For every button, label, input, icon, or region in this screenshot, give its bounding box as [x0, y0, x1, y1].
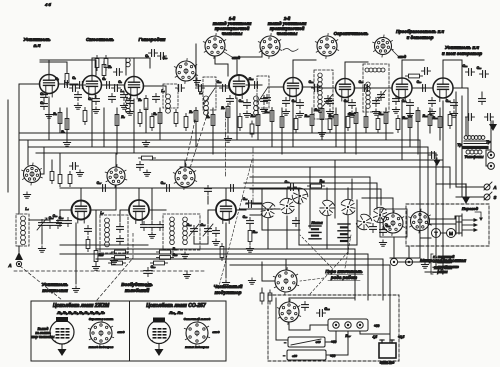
- svg-text:С₁₂: С₁₂: [217, 80, 222, 84]
- capacitor C58 left: [72, 163, 74, 170]
- resistor R31 top of switch: [311, 184, 322, 188]
- wire dropper x440: [439, 108, 441, 140]
- ground arrow under 2Zh2M: [61, 344, 63, 350]
- wire tube drop x402: [401, 101, 403, 160]
- wire L11 grid: [208, 210, 216, 224]
- wire mid vertical b: [207, 196, 209, 204]
- svg-text:Л₁₀, Л₁₁: Л₁₀, Л₁₁: [168, 310, 183, 315]
- wire tube drop x92: [91, 98, 93, 147]
- ground top mid2: [321, 130, 323, 133]
- svg-text:С₃₈: С₃₈: [243, 197, 249, 201]
- pointer line socket2: [392, 50, 398, 56]
- capacitor C35 mod: [205, 228, 212, 230]
- ground d5: [329, 109, 331, 112]
- wire switch drop 4: [347, 188, 349, 199]
- capacitor C12 IF coupling: [222, 85, 224, 92]
- capacitor C22 output: [468, 69, 470, 76]
- bus wire +anode top: [20, 132, 393, 134]
- svg-text:А: А: [492, 185, 496, 190]
- coil L-osc: [105, 218, 110, 223]
- capacitor C3 cathode L1: [41, 94, 48, 96]
- wire far left vertical: [7, 100, 9, 192]
- tube symbol 2Zh2M side view: [50, 317, 74, 353]
- wire L11 to switch: [236, 209, 246, 211]
- resistor R27 strip1: [160, 250, 171, 254]
- socket top view near heterodyne: [174, 59, 197, 84]
- ground d6: [375, 109, 377, 112]
- wire left frame: [19, 83, 40, 85]
- resistor R13: [310, 115, 314, 126]
- tube L7 (detector): [392, 78, 412, 102]
- wire vertical x368: [367, 254, 369, 300]
- IF transformer dashed box L4a: [203, 77, 216, 110]
- svg-text:С₂₂: С₂₂: [463, 64, 469, 68]
- capacitor C30: [57, 220, 64, 222]
- ground under C40: [249, 246, 251, 249]
- ground under L2: [95, 107, 97, 110]
- wire dropper x60: [59, 108, 61, 133]
- ground under L11: [225, 280, 227, 283]
- wire dropper x418: [417, 108, 419, 154]
- resistor R57 mid sockets row: [142, 156, 153, 160]
- svg-text:анод: анод: [117, 330, 124, 334]
- wire to antenna terminal vertical: [455, 92, 457, 187]
- capacitor C9 heterodyne: [151, 50, 153, 57]
- ground under C26: [147, 282, 149, 285]
- svg-text:Преобразователь н.ч: Преобразователь н.ч: [396, 29, 445, 34]
- pinout box divider: [129, 301, 131, 361]
- capacitor C-ant trimmer: [39, 222, 46, 224]
- wire vertical x428 lower: [399, 256, 428, 262]
- wire top rail 4: [261, 50, 263, 57]
- bus to mic connector 3: [250, 189, 381, 205]
- wire L8 in: [423, 87, 433, 89]
- resistor R42: [376, 119, 380, 130]
- dashed section boundary horizontal: [14, 270, 205, 272]
- capacitor C56: [178, 85, 180, 92]
- capacitor C23 output2: [482, 71, 484, 78]
- wire dropper x386: [385, 108, 387, 140]
- wire transformer primary left: [467, 116, 469, 135]
- switch wafer contact S1a: [260, 201, 276, 218]
- resistor R51 stack3: [112, 261, 123, 265]
- capacitor C48: [153, 96, 160, 98]
- battery stack anode: [338, 223, 350, 225]
- svg-text:и детектор: и детектор: [407, 35, 434, 40]
- dashed pointer socket3: [190, 112, 208, 168]
- svg-text:Гетеродин: Гетеродин: [139, 37, 166, 43]
- svg-text:С₁₃: С₁₃: [239, 99, 244, 103]
- resistor R29 strip3: [154, 261, 165, 265]
- wire mid rail top: [60, 187, 300, 189]
- svg-text:А: А: [7, 263, 11, 268]
- svg-text:С₄₀: С₄₀: [243, 215, 249, 219]
- svg-text:С₃₅: С₃₅: [201, 223, 207, 227]
- ground mid sockets row: [146, 170, 148, 173]
- IF transformer dashed box 2: [363, 64, 389, 112]
- trimmer arrow C35: [203, 224, 213, 236]
- capacitor C39: [205, 188, 212, 190]
- tube L3 (heterodyne): [125, 77, 144, 100]
- resistor R22: [438, 117, 442, 128]
- coil L-IF4 winding: [254, 96, 259, 101]
- wire mid vertical c: [115, 186, 117, 210]
- wire C44 down to terminal: [490, 121, 492, 151]
- IF transformer dashed box L4b: [257, 76, 269, 108]
- wire caps join: [41, 229, 43, 244]
- terminal Z with slash: [484, 194, 490, 200]
- dash-dot mechanical link 1: [225, 112, 227, 176]
- ground left low: [26, 192, 28, 195]
- capacitor C31: [65, 220, 72, 222]
- wire left col 4: [59, 153, 61, 173]
- wire L7 out: [412, 87, 423, 89]
- coil det box horizontal: [365, 68, 369, 72]
- strip terminal 1: [333, 322, 339, 328]
- svg-text:С₃₄: С₃₄: [187, 223, 193, 227]
- capacitor C19 bypass: [407, 102, 414, 104]
- switch wafer contact S1d: [340, 198, 356, 215]
- switch wafer contact S2b: [354, 212, 373, 232]
- svg-text:С₁₀: С₁₀: [163, 56, 168, 60]
- resistor R39: [294, 119, 298, 130]
- output transformer secondary turns: [466, 150, 470, 154]
- socket top view mid (wave switch): [173, 165, 196, 190]
- wire L5 in: [268, 86, 284, 88]
- socket top view of L4 with pin labels: [203, 34, 226, 59]
- ground mid extra: [186, 272, 188, 275]
- terminal A with slash: [484, 184, 490, 190]
- ground d1: [77, 103, 79, 106]
- svg-text:и тон генератор: и тон генератор: [442, 51, 482, 56]
- capacitor C25: [55, 222, 62, 224]
- resistor R20: [416, 111, 420, 122]
- svg-text:мер частоты: мер частоты: [32, 335, 55, 339]
- capacitor C50: [261, 98, 268, 100]
- wire switch link low2: [326, 216, 328, 249]
- bus wire 5: [150, 160, 443, 268]
- wire L11 anode up: [225, 188, 227, 200]
- wire plug to terminal 1: [393, 237, 395, 258]
- trimmer arrow box1: [323, 94, 333, 106]
- dashed pointer to wafer 2: [345, 235, 351, 268]
- contact bar lines: [458, 216, 460, 234]
- wire dropper x196: [195, 108, 197, 147]
- svg-text:Цоколёвка ламп 2Ж2М: Цоколёвка ламп 2Ж2М: [53, 303, 110, 309]
- capacitor C27 mid coupling: [102, 185, 104, 192]
- resistor R38: [238, 117, 242, 128]
- coil L-IF3 winding: [204, 96, 209, 101]
- bus wire 3: [28, 147, 428, 256]
- capacitor C5 between L2-L3: [106, 82, 108, 89]
- svg-text:С₁₉: С₁₉: [402, 99, 407, 103]
- ground mid b: [215, 239, 217, 242]
- strip terminal 2: [345, 322, 351, 328]
- wire switch drop 2: [286, 188, 288, 198]
- ground under L9: [75, 286, 77, 289]
- tube L2 (mixer): [83, 76, 102, 99]
- svg-text:R₁₁: R₁₁: [265, 110, 270, 114]
- output transformer primary: [464, 136, 468, 140]
- wire mod caps bottom: [194, 236, 208, 244]
- ground AF: [453, 111, 455, 114]
- capacitor C4: [41, 103, 48, 105]
- microphone circle M: [447, 229, 456, 238]
- svg-text:R₂₈: R₂₈: [173, 253, 179, 257]
- wire into switch 2: [240, 208, 280, 210]
- wire L6 anode: [345, 62, 368, 78]
- resistor R47 left: [68, 175, 72, 184]
- bus wire 2: [20, 140, 420, 250]
- wire ground terminal lead: [456, 196, 484, 198]
- resistor R4: [115, 115, 119, 126]
- resistor R9: [226, 107, 230, 118]
- resistor R59 pair: [250, 124, 254, 134]
- switch wafer contact S1c: [318, 198, 336, 217]
- wire switch vertical long2: [334, 160, 336, 218]
- capacitor C29 out: [468, 114, 470, 121]
- wire switch drop 3: [326, 188, 328, 200]
- wire L2 to L3 coupling: [101, 84, 124, 86]
- svg-text:«НКН-10»: «НКН-10»: [380, 361, 395, 365]
- antenna arrow symbol: [15, 252, 23, 260]
- trimmer arrow det box: [376, 90, 386, 102]
- wire vertical x383: [382, 259, 384, 300]
- ground under L3: [129, 109, 131, 112]
- svg-text:R₁₃: R₁₃: [305, 114, 310, 118]
- ground under L10 box: [113, 258, 115, 261]
- ground d2: [123, 103, 125, 106]
- wire mid vertical a: [151, 188, 153, 220]
- bus to mic connector 2: [244, 183, 377, 209]
- capacitor C28 mid: [166, 185, 168, 192]
- capacitor C32 in box: [117, 226, 124, 228]
- resistor R55 feed L2a: [95, 59, 99, 68]
- svg-text:Усилитель: Усилитель: [42, 282, 68, 287]
- wire T to M: [441, 232, 446, 234]
- tube L10 (oscillator): [129, 200, 149, 224]
- ground IF2: [299, 111, 301, 114]
- resistor R32 feed1: [65, 74, 69, 83]
- battery stack Nakal: [309, 225, 321, 227]
- wire L7 anode: [402, 60, 424, 78]
- svg-text:трубка: трубка: [434, 264, 452, 271]
- wire grid cap L4 top: [215, 56, 228, 76]
- wire dropper x322: [321, 108, 323, 140]
- connector socket power plug: [277, 300, 300, 325]
- wire vertical x420 lower: [390, 250, 420, 258]
- svg-text:R₁₆: R₁₆: [349, 112, 354, 116]
- wire vertical x390 to accumulator: [389, 265, 391, 343]
- svg-text:R₁₅: R₁₅: [329, 114, 334, 118]
- wire mic bundle 1: [351, 179, 353, 199]
- capacitor C24: [47, 222, 54, 224]
- capacitor C63: [141, 224, 148, 226]
- svg-text:М: М: [449, 231, 453, 236]
- svg-text:Цоколёвка ламп СО-257: Цоколёвка ламп СО-257: [146, 303, 206, 309]
- wire switch link low: [267, 218, 269, 249]
- svg-text:Ограничитель: Ограничитель: [334, 31, 369, 36]
- wire vertical x355 to bottom box: [354, 249, 356, 300]
- resistor R41: [346, 117, 350, 128]
- svg-text:Л₁,Л₂,Л₃,Л₄,Л₅,Л₆,Л₇,Л₈,Л₉: Л₁,Л₂,Л₃,Л₄,Л₅,Л₆,Л₇,Л₈,Л₉: [56, 310, 105, 315]
- resistor R3 screen L2: [102, 65, 106, 76]
- capacitor C42 power: [319, 310, 321, 317]
- svg-text:+2,5: +2,5: [398, 335, 405, 339]
- wire box internal right: [389, 300, 391, 343]
- svg-text:модулятор: модулятор: [215, 290, 242, 295]
- capacitor C54: [393, 98, 400, 100]
- wire vertical x436 lower: [435, 262, 437, 268]
- svg-text:частоты: частоты: [222, 31, 243, 36]
- plug square around X1: [380, 209, 407, 237]
- svg-text:мощности: мощности: [42, 288, 68, 293]
- ground arrow under SO-257: [158, 344, 160, 350]
- antenna input coil dashed box: [16, 214, 29, 246]
- wire dropper x366: [365, 108, 367, 133]
- wire dropper x117: [116, 108, 118, 154]
- socket bottom view SO-257: [184, 320, 209, 347]
- capacitor C8 choke: [116, 69, 118, 76]
- wire dropper x258: [257, 108, 259, 140]
- socket top view mid-left: [105, 165, 127, 188]
- switch wafer contact S1e: [373, 207, 386, 222]
- IF transformer dashed box L3out: [163, 84, 178, 108]
- coil in det box: [366, 82, 370, 86]
- resistor R44: [448, 115, 452, 126]
- capacitor C15 bypass: [297, 102, 304, 104]
- coil L-choke top: [126, 58, 130, 62]
- capacitor C47: [121, 94, 128, 96]
- resistor R2: [65, 119, 69, 130]
- svg-text:L₁: L₁: [120, 89, 123, 93]
- capacitor C49: [227, 98, 234, 100]
- dashed section boundary left: [20, 266, 62, 300]
- perevod wire with arrow: [475, 212, 481, 218]
- capacitor C61: [213, 230, 220, 232]
- bold ground arrow above mic box: [465, 184, 467, 197]
- wire dropper x228: [227, 108, 229, 133]
- wire top rail stage1: [40, 60, 96, 75]
- svg-text:С₂₁: С₂₁: [446, 99, 451, 103]
- svg-text:Телефоны: Телефоны: [465, 155, 484, 159]
- contact arrow 2: [462, 224, 475, 226]
- capacitor C29 mid: [290, 184, 292, 191]
- capacitor C2 grid L2: [72, 85, 74, 92]
- resistor R50 stack2: [115, 256, 126, 260]
- wire secondary to terminal2: [486, 150, 488, 166]
- wire dropper x430: [429, 108, 431, 133]
- wire X2 leads: [262, 262, 275, 281]
- wire left col 2: [40, 147, 44, 174]
- wire C38 on: [254, 203, 262, 205]
- svg-text:Экранная сетка: Экранная сетка: [89, 317, 114, 321]
- wire dropper x104: [103, 108, 105, 147]
- resistor R58 between L7 L8: [409, 74, 420, 78]
- resistor R15: [334, 115, 338, 126]
- wire terminal2 to gnd: [413, 261, 425, 263]
- svg-text:Т: Т: [435, 231, 438, 236]
- wire dropper x67: [66, 108, 68, 140]
- capacitor C66 series3: [79, 82, 81, 89]
- bus wire lower 2: [60, 253, 368, 255]
- socket top view of L7: [373, 35, 394, 57]
- resistor R33: [83, 111, 87, 122]
- socket top view left (RF band switch): [22, 163, 43, 185]
- ground mid a: [151, 232, 153, 235]
- wire socket to T: [420, 231, 431, 238]
- svg-text:С₂₅: С₂₅: [59, 216, 65, 220]
- capacitor C45: [75, 94, 82, 96]
- ground detector: [409, 111, 411, 114]
- capacitor C59 switch: [293, 220, 300, 222]
- IF transformer dashed box 1: [314, 70, 333, 119]
- svg-text:С₃₀: С₃₀: [53, 214, 59, 218]
- wire L6 out: [354, 87, 372, 89]
- resistor R17: [364, 117, 368, 128]
- svg-text:катод подогрев: катод подогрев: [89, 345, 114, 349]
- wavy pointer from socket L5: [283, 49, 298, 52]
- wire right edge col: [481, 92, 483, 96]
- note bracket: [430, 254, 432, 274]
- capacitor C37: [157, 224, 164, 226]
- svg-text:R₂₆: R₂₆: [253, 230, 259, 234]
- svg-text:С₁: С₁: [55, 77, 58, 81]
- coil L-IF2 winding: [166, 94, 171, 99]
- capacitor C64 mid left: [85, 228, 92, 230]
- wire dropper x272: [271, 108, 273, 147]
- ground near terminals: [424, 262, 426, 265]
- svg-text:4 б: 4 б: [44, 2, 51, 7]
- svg-text:Перевод: Перевод: [462, 207, 479, 211]
- wire dropper x336: [335, 108, 337, 147]
- capacitor C69 on bus: [431, 152, 433, 159]
- pointer line socket to stage: [224, 52, 232, 57]
- resistor R11: [270, 111, 274, 122]
- wire socket top loop: [289, 298, 355, 302]
- capacitor C57: [198, 85, 200, 92]
- capacitor C6: [114, 85, 116, 92]
- resistor R21: [428, 115, 432, 126]
- svg-text:анод: анод: [398, 55, 406, 59]
- mic box contact bar: [461, 214, 463, 236]
- resistor R43: [396, 119, 400, 130]
- connector socket X1 (to mic cable): [381, 211, 404, 236]
- terminal telephone output 1: [488, 152, 495, 159]
- svg-text:частоты: частоты: [277, 31, 298, 36]
- resistor R48 mid left: [86, 240, 90, 249]
- resistor R49 stack1: [115, 250, 126, 254]
- coil L-IF1 winding: [126, 94, 131, 99]
- capacitor C38 L11 out: [248, 201, 250, 208]
- battery block B2: [287, 350, 326, 360]
- wire socket mid link2: [184, 160, 186, 167]
- wire into switch 1: [246, 202, 262, 204]
- bus wire lower 3: [96, 258, 383, 260]
- underline switch label: [326, 274, 363, 276]
- wire ant coil to caps: [29, 219, 50, 221]
- svg-text:R₁₈: R₁₈: [379, 112, 384, 116]
- modulator coil dashed box: [163, 214, 200, 250]
- capacitor C41 switch: [380, 229, 387, 231]
- resistor R8: [211, 115, 215, 126]
- trimmer arrow L4b: [258, 87, 268, 102]
- wire L2 input: [70, 84, 82, 86]
- svg-text:колебаний: колебаний: [125, 287, 150, 293]
- wire dropper x282: [281, 108, 283, 154]
- wire antenna lower lead: [18, 246, 20, 252]
- capacitor C33 in box: [117, 238, 124, 240]
